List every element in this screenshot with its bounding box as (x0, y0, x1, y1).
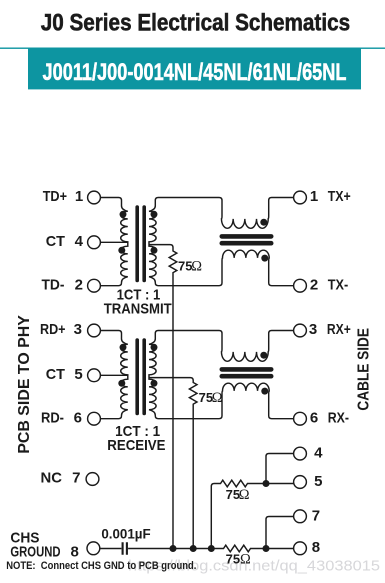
wire pin 8 to capacitor (100, 548, 121, 550)
wire CT pin to T2 center tap (100, 374, 127, 376)
resistor R1 75ohm (TX tap to chassis) (149, 245, 177, 549)
svg-text:GROUND: GROUND (10, 544, 60, 561)
svg-text:TX-: TX- (328, 276, 349, 293)
terminal cable pin 7 (cable side) (294, 510, 307, 523)
terminal cable pin 5 (cable side) (294, 476, 307, 489)
L2 phase dot bottom winding (261, 388, 268, 395)
svg-text:8: 8 (312, 539, 320, 556)
terminal RD- pin 6 (PHY side) (88, 412, 101, 425)
svg-text:CABLE SIDE: CABLE SIDE (355, 328, 372, 411)
svg-text:CT: CT (46, 366, 65, 383)
terminal TX+ pin 1 (cable side) (294, 191, 307, 204)
terminal RX- pin 6 (cable side) (294, 412, 307, 425)
svg-text:TRANSMIT: TRANSMIT (104, 301, 172, 318)
terminal RD+ pin 3 (PHY side) (88, 324, 101, 337)
teal rule (0, 48, 385, 49)
svg-text:NOTE: Connect CHS GND to PCB: NOTE: Connect CHS GND to PCB ground. (6, 560, 196, 572)
svg-text:J0011/J00-0014NL/45NL/61NL/65N: J0011/J00-0014NL/45NL/61NL/65NL (43, 60, 347, 86)
L1 phase dot bottom winding (261, 255, 268, 262)
svg-text:TD+: TD+ (43, 188, 67, 205)
svg-text:2: 2 (75, 276, 83, 293)
terminal cable pin 4 (cable side) (294, 447, 307, 460)
svg-text:75: 75 (226, 551, 240, 566)
T2 secondary winding, choke L2 and wires (149, 331, 294, 419)
ground bus with resistor R4 75ohm (pins 7/8) (128, 545, 294, 552)
T1 phase dot secondary lower (151, 247, 158, 254)
junction R2/bus (190, 545, 197, 552)
terminal CHS GROUND pin 8 (PHY side) (87, 542, 100, 555)
svg-text:RX-: RX- (328, 409, 349, 426)
choke L1 core (222, 234, 271, 239)
terminal CT pin 5 (PHY side) (88, 369, 101, 382)
svg-text:6: 6 (74, 409, 82, 426)
L2 phase dot top winding (260, 352, 267, 359)
svg-text:4: 4 (314, 444, 323, 461)
terminal NC pin 7 (PHY side) (86, 473, 99, 486)
T1 phase dot secondary top (151, 211, 158, 218)
svg-text:6: 6 (310, 409, 318, 426)
svg-text:RD+: RD+ (40, 321, 66, 338)
terminal TD- pin 2 (PHY side) (88, 279, 101, 292)
svg-text:TD-: TD- (42, 276, 65, 293)
resistor R3 75ohm (pins 4/5 to chassis) (211, 480, 293, 548)
transformer T2 core (135, 340, 139, 414)
wire pin 7 branch (266, 517, 294, 549)
capacitor C1 0.001uF (123, 542, 127, 554)
svg-text:2: 2 (310, 276, 318, 293)
terminal RX+ pin 3 (cable side) (294, 324, 307, 337)
T2 phase dot secondary lower (151, 380, 158, 387)
svg-text:8: 8 (71, 544, 79, 561)
svg-text:TX+: TX+ (328, 188, 351, 205)
junction R1/bus (170, 545, 177, 552)
transformer T1 primary winding (100, 198, 127, 286)
wire CT pin to T1 center tap (100, 241, 127, 243)
terminal TD+ pin 1 (PHY side) (88, 191, 101, 204)
svg-text:NC: NC (41, 470, 63, 487)
svg-text:0.001µF: 0.001µF (101, 526, 151, 542)
svg-text:4: 4 (75, 233, 84, 250)
choke L2 core (222, 367, 271, 372)
svg-text:3: 3 (309, 321, 317, 338)
junction R3/bus (208, 545, 215, 552)
svg-text:1: 1 (75, 188, 83, 205)
wire pin 4 branch (266, 454, 294, 484)
T2 phase dot primary lower (118, 380, 125, 387)
transformer T2 primary winding (100, 331, 127, 419)
svg-text:5: 5 (74, 366, 82, 383)
T2 phase dot primary top (120, 344, 127, 351)
svg-text:Ω: Ω (239, 487, 250, 503)
svg-text:RECEIVE: RECEIVE (107, 437, 165, 454)
L1 phase dot top winding (260, 219, 267, 226)
T1 secondary winding, choke L1 and wires (149, 198, 294, 286)
terminal cable pin 8 (cable side) (294, 542, 307, 555)
T2 phase dot secondary top (151, 344, 158, 351)
terminal TX- pin 2 (cable side) (294, 279, 307, 292)
svg-text:3: 3 (74, 321, 82, 338)
svg-text:7: 7 (72, 470, 80, 487)
T1 phase dot primary lower (118, 247, 125, 254)
svg-text:J0 Series Electrical Schematic: J0 Series Electrical Schematics (41, 10, 350, 36)
part-number banner (28, 48, 361, 90)
svg-text:RD-: RD- (41, 409, 64, 426)
svg-text:CT: CT (46, 233, 65, 250)
transformer T1 core (135, 207, 139, 281)
svg-text:Ω: Ω (191, 258, 202, 274)
svg-text:Ω: Ω (240, 551, 251, 567)
svg-text:5: 5 (314, 473, 322, 490)
svg-text:1: 1 (310, 188, 318, 205)
svg-text:Ω: Ω (212, 390, 223, 406)
terminal CT pin 4 (PHY side) (88, 236, 101, 249)
svg-text:RX+: RX+ (327, 321, 351, 338)
junction pins4-5 (263, 480, 270, 487)
svg-text:7: 7 (312, 507, 320, 524)
resistor R2 75ohm (RX tap to chassis) (149, 378, 197, 549)
junction pins7-8 (263, 545, 270, 552)
T1 phase dot primary top (120, 211, 127, 218)
svg-text:PCB SIDE TO PHY: PCB SIDE TO PHY (16, 315, 33, 454)
